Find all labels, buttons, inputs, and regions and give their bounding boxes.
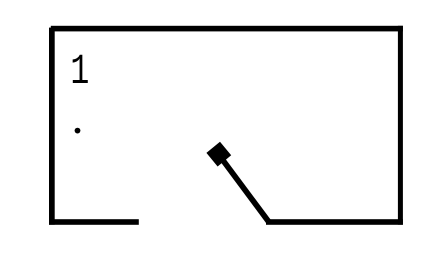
svg-text:1: 1 [70,49,89,97]
